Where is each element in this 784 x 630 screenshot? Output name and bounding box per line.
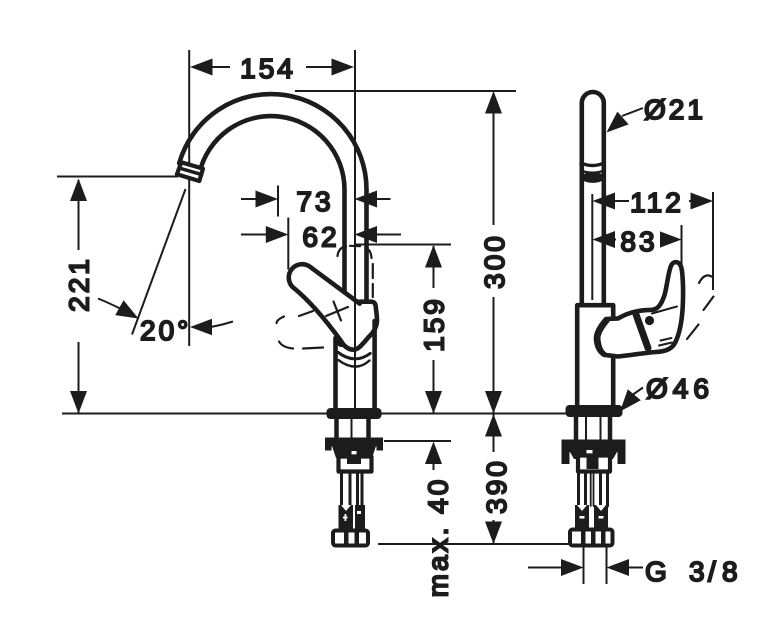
dimension 221 extension line top [57, 176, 178, 178]
angle 20 text [140, 315, 191, 346]
handle and cone right view [596, 262, 683, 356]
shank left view [337, 419, 369, 438]
shank right view [576, 417, 610, 440]
angle 20 slanted line [132, 189, 186, 335]
dimension 83 text [620, 226, 657, 257]
deck line [62, 413, 566, 415]
dimension 390 line and arrows [479, 414, 508, 545]
hose connectors right view [575, 505, 608, 530]
dimension 154 extension line left [188, 50, 190, 346]
dashed lever raised position [338, 246, 373, 297]
dimension 300 line and arrows [479, 91, 508, 414]
dimension 73 extension line [277, 186, 279, 217]
dimension 221 text [64, 256, 95, 312]
svg-text:154: 154 [240, 53, 296, 84]
dimension max40 text [423, 477, 454, 598]
inlet foot left view [333, 531, 368, 546]
dimension 112 line and arrows [593, 188, 714, 214]
svg-text:112: 112 [630, 187, 684, 218]
svg-text:73: 73 [296, 186, 333, 217]
svg-text:G3/8: G3/8 [645, 556, 741, 587]
dashed lever swing arc lower left [277, 311, 324, 349]
mounting nut right view [562, 440, 626, 465]
dimension max40 arrow [425, 442, 442, 471]
dimension 83 extension line right [681, 225, 683, 267]
dimension 154 text [240, 53, 296, 84]
mounting bracket right view [578, 456, 610, 472]
spout tip collar [177, 162, 203, 181]
dimension 83 line and arrows [593, 227, 682, 252]
dimension G38 text [645, 556, 741, 587]
riser tube right view [582, 92, 604, 303]
dimension 62 extension line [287, 218, 289, 270]
dimension G38 extension lines [584, 546, 607, 584]
angle 20 leader arrow left [98, 299, 139, 319]
svg-text:Ø46: Ø46 [646, 373, 714, 404]
plus mark on lever [326, 302, 348, 321]
svg-text:159: 159 [419, 296, 450, 352]
dome rings [338, 352, 371, 367]
svg-text:390: 390 [481, 458, 512, 514]
swivel ring lines [581, 163, 604, 173]
dashed handle swing right view [687, 275, 714, 339]
swivel black band [581, 172, 604, 183]
svg-text:221: 221 [64, 256, 95, 312]
dimension 62 line and arrows [241, 226, 401, 243]
svg-text:300: 300 [479, 233, 510, 289]
dimension 159 line and arrows [419, 245, 448, 414]
dimension 73 line and arrows [241, 191, 391, 208]
dimension 300 text [479, 233, 510, 289]
bottom extension line [378, 543, 569, 545]
svg-text:83: 83 [620, 226, 657, 257]
dimension 159 text [419, 296, 450, 352]
dimension max40 line at 40 depth [384, 440, 451, 442]
dimension 159 extension line top [355, 244, 452, 246]
svg-text:62: 62 [302, 222, 339, 253]
escutcheon flange left view [327, 408, 382, 419]
dimension 112 extension line right [712, 192, 714, 290]
center extension line over body [354, 290, 356, 409]
dimension 154 extension line right [354, 50, 356, 409]
dimension G38 arrows [528, 559, 643, 576]
label diameter 21 text [644, 94, 706, 125]
dimension 300 extension line top [295, 90, 516, 92]
dimension 221 line and arrows [63, 179, 93, 414]
svg-text:Ø21: Ø21 [644, 94, 706, 125]
dimension 112 text [630, 187, 684, 218]
svg-text:max. 40: max. 40 [423, 477, 454, 598]
inlet foot right view [570, 530, 613, 546]
spout inner arc [199, 116, 344, 312]
joint shadow wedge [337, 338, 346, 347]
label diameter 21 leader [607, 108, 644, 133]
supply hoses right view [579, 471, 608, 506]
spout outer arc [179, 94, 366, 303]
body walls below joint [336, 321, 375, 409]
dimension 112 extension line left [591, 194, 593, 300]
angle 20 leader arrow right [190, 319, 233, 335]
escutcheon flange right view [566, 405, 623, 417]
svg-text:20°: 20° [140, 315, 191, 346]
body right view [577, 305, 613, 405]
dimension 73 text [296, 186, 333, 217]
label diameter 46 text [646, 373, 714, 404]
dimension 154 line and arrows [190, 54, 354, 80]
hose connectors left view [339, 505, 366, 530]
dimension 390 text [481, 458, 512, 514]
mounting bracket left view [339, 457, 372, 472]
mounting nut left view [325, 438, 383, 466]
lever handle and cartridge joint [289, 264, 377, 350]
label diameter 46 leader [620, 388, 643, 412]
dimension 62 text [302, 222, 339, 253]
supply hoses left view [342, 471, 363, 506]
